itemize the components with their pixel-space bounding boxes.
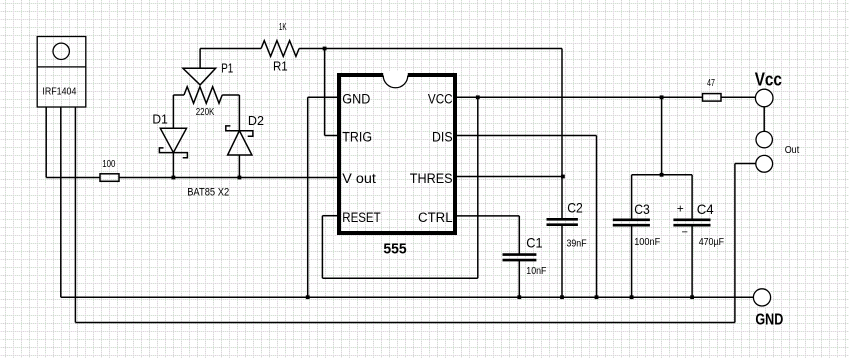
svg-text:10nF: 10nF [526,266,546,277]
svg-text:−: − [682,226,688,238]
svg-text:+: + [677,202,684,216]
svg-text:GND: GND [342,91,370,107]
svg-text:39nF: 39nF [567,238,587,249]
svg-text:TRIG: TRIG [342,129,372,145]
svg-text:C1: C1 [526,236,542,251]
svg-text:1K: 1K [279,22,287,33]
svg-text:CTRL: CTRL [418,210,453,226]
svg-text:47: 47 [707,78,715,89]
svg-text:R1: R1 [273,59,288,74]
svg-text:V out: V out [342,171,376,187]
svg-text:470µF: 470µF [699,237,724,248]
svg-text:RESET: RESET [342,210,381,226]
svg-text:VCC: VCC [428,91,453,107]
svg-text:555: 555 [383,241,406,258]
svg-text:THRES: THRES [410,171,453,187]
svg-text:Vcc: Vcc [755,68,782,89]
svg-text:Out: Out [785,145,800,156]
svg-text:220K: 220K [196,107,215,118]
svg-text:C2: C2 [567,200,583,215]
svg-text:D1: D1 [152,112,167,127]
svg-text:GND: GND [755,312,783,329]
svg-text:C3: C3 [634,202,650,217]
svg-text:DIS: DIS [432,129,453,145]
svg-text:100: 100 [102,159,116,170]
svg-text:BAT85 X2: BAT85 X2 [187,187,229,199]
svg-text:IRF1404: IRF1404 [42,87,76,98]
svg-text:D2: D2 [248,113,264,128]
svg-text:C4: C4 [697,202,714,217]
svg-text:100nF: 100nF [634,237,660,248]
svg-text:P1: P1 [221,61,233,76]
